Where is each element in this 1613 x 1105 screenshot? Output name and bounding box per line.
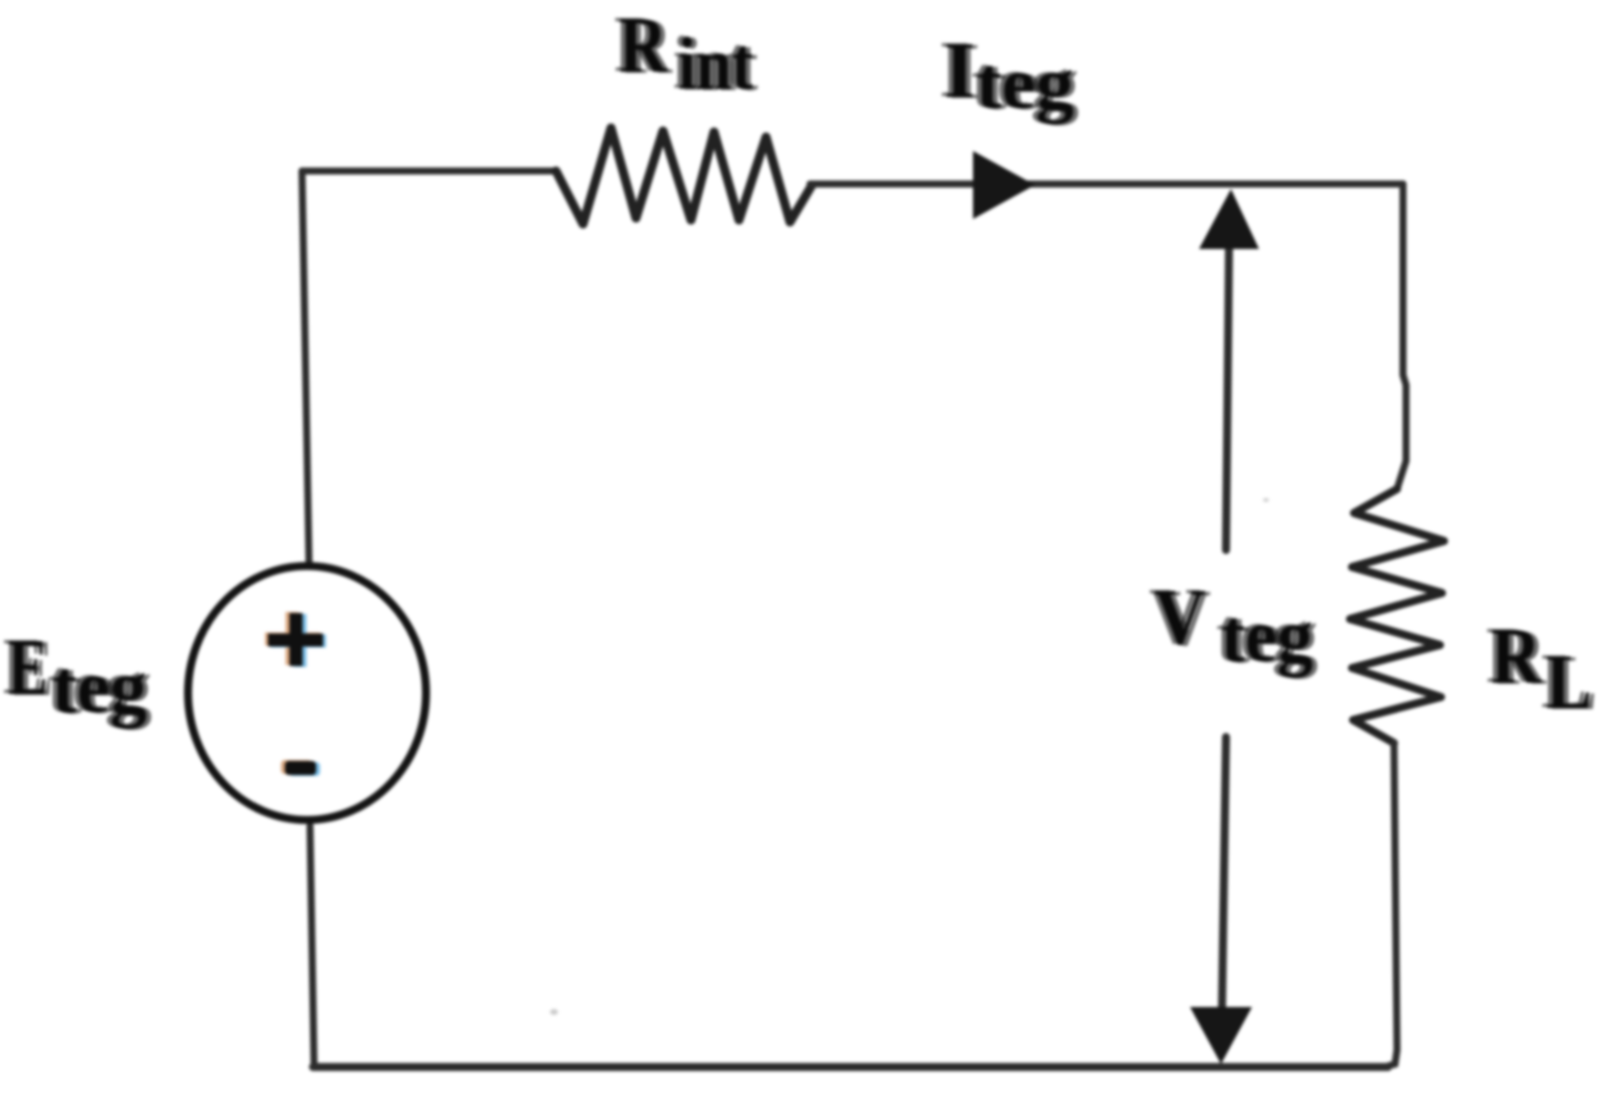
resistor Rint zigzag bbox=[556, 128, 812, 224]
Rint label main R bbox=[614, 1, 673, 91]
speck artifact near Vteg arrow bbox=[1263, 498, 1269, 502]
svg-text:R: R bbox=[1491, 613, 1542, 701]
voltage arrow Vteg lower shaft bbox=[1222, 737, 1226, 1008]
Vteg label main V bbox=[1149, 573, 1211, 663]
wire left-upper vertical bbox=[302, 171, 309, 562]
RL label main R bbox=[1486, 612, 1547, 702]
voltage source Eteg circle bbox=[188, 566, 426, 820]
wire top-right horizontal bbox=[810, 181, 1403, 188]
svg-text:L: L bbox=[1546, 638, 1592, 725]
svg-text:int: int bbox=[678, 23, 753, 106]
Eteg label main E bbox=[3, 623, 53, 713]
Eteg label subscript teg bbox=[47, 644, 152, 730]
Iteg label subscript teg bbox=[971, 42, 1079, 126]
wire right-upper vertical bbox=[1397, 184, 1406, 489]
svg-text:E: E bbox=[8, 624, 48, 712]
svg-text:R: R bbox=[619, 2, 668, 90]
voltage arrow Vteg up head bbox=[1199, 189, 1259, 249]
wire bottom horizontal bbox=[313, 1063, 1388, 1071]
Rint label subscript int bbox=[673, 22, 758, 107]
svg-text:teg: teg bbox=[1221, 594, 1313, 678]
voltage arrow Vteg down head bbox=[1190, 1007, 1252, 1064]
resistor RL zigzag bbox=[1350, 489, 1444, 743]
RL label subscript L bbox=[1541, 637, 1597, 726]
plus terminal of source bbox=[265, 612, 326, 667]
minus terminal of source bbox=[281, 760, 320, 776]
wire right-lower vertical bbox=[1385, 743, 1397, 1067]
current arrow Iteg head bbox=[973, 151, 1035, 219]
wire left-lower vertical bbox=[310, 826, 314, 1063]
Iteg label main I bbox=[939, 26, 980, 116]
Vteg label subscript teg bbox=[1216, 593, 1318, 679]
speck artifact near bottom wire bbox=[550, 1009, 558, 1015]
svg-text:V: V bbox=[1154, 574, 1206, 662]
svg-text:teg: teg bbox=[976, 43, 1074, 125]
voltage arrow Vteg upper shaft bbox=[1226, 247, 1229, 550]
svg-text:teg: teg bbox=[52, 645, 147, 729]
wire top-left horizontal bbox=[302, 168, 556, 175]
